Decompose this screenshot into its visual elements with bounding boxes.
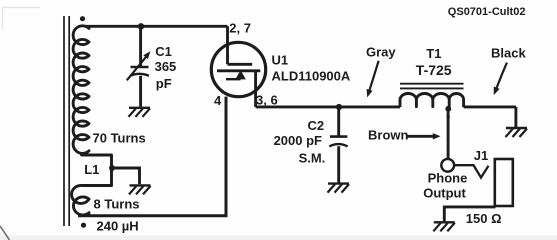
- svg-text:70 Turns: 70 Turns: [93, 131, 146, 146]
- svg-text:J1: J1: [474, 148, 488, 163]
- svg-text:3, 6: 3, 6: [256, 92, 278, 107]
- svg-text:2000 pF: 2000 pF: [274, 133, 322, 148]
- svg-text:8 Turns: 8 Turns: [94, 196, 140, 211]
- svg-text:Gray: Gray: [366, 45, 396, 60]
- svg-text:ALD110900A: ALD110900A: [272, 69, 351, 84]
- svg-text:4: 4: [214, 93, 222, 108]
- svg-text:U1: U1: [272, 53, 289, 68]
- svg-text:2, 7: 2, 7: [229, 21, 251, 36]
- svg-text:S.M.: S.M.: [299, 151, 326, 166]
- svg-text:150 Ω: 150 Ω: [466, 211, 502, 226]
- svg-text:Black: Black: [491, 45, 526, 60]
- svg-text:QS0701-Cult02: QS0701-Cult02: [448, 6, 526, 18]
- svg-text:C2: C2: [308, 118, 325, 133]
- svg-text:L1: L1: [84, 162, 99, 177]
- svg-text:C1: C1: [155, 44, 172, 59]
- svg-text:Output: Output: [423, 186, 466, 201]
- svg-text:Phone: Phone: [428, 171, 468, 186]
- svg-text:T1: T1: [426, 46, 441, 61]
- svg-text:365: 365: [155, 59, 177, 74]
- svg-text:T-725: T-725: [416, 62, 452, 78]
- svg-text:Brown: Brown: [368, 128, 409, 143]
- svg-text:240 µH: 240 µH: [97, 218, 139, 233]
- svg-text:pF: pF: [156, 76, 172, 91]
